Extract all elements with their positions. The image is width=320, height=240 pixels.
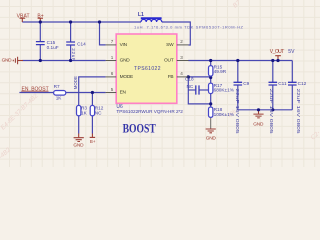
svg-text:NC: NC [95, 110, 102, 115]
svg-text:R7: R7 [54, 84, 60, 89]
svg-text:7: 7 [111, 39, 114, 44]
svg-text:3: 3 [180, 55, 183, 60]
svg-text:C12: C12 [298, 81, 307, 86]
svg-text:FB: FB [168, 74, 174, 80]
svg-text:1K: 1K [81, 110, 88, 115]
svg-text:OUT: OUT [164, 58, 174, 64]
svg-text:V_OUT: V_OUT [270, 49, 285, 55]
svg-text:L1: L1 [138, 12, 144, 18]
svg-text:2: 2 [180, 39, 183, 44]
svg-text:C9: C9 [243, 81, 249, 86]
svg-text:C14: C14 [77, 42, 86, 47]
svg-text:GND: GND [73, 142, 84, 148]
svg-text:MODE: MODE [73, 76, 78, 89]
svg-text:C11: C11 [278, 81, 287, 86]
svg-text:EN_BOOST: EN_BOOST [22, 86, 49, 92]
svg-text:100K±1%: 100K±1% [214, 112, 234, 117]
svg-text:GND: GND [120, 58, 131, 64]
svg-text:C18: C18 [185, 76, 194, 81]
svg-text:49.9R: 49.9R [214, 69, 227, 74]
svg-text:22uF: 22uF [71, 48, 76, 61]
svg-text:GND: GND [206, 135, 217, 141]
svg-text:4: 4 [180, 71, 183, 76]
svg-text:VIN: VIN [120, 42, 128, 48]
svg-text:VBAT: VBAT [17, 13, 30, 19]
svg-text:5V: 5V [288, 49, 295, 55]
svg-text:B+: B+ [90, 139, 96, 144]
svg-text:GND: GND [253, 121, 264, 127]
svg-text:0.1uF: 0.1uF [47, 45, 59, 50]
svg-text:MODE: MODE [120, 74, 133, 80]
svg-text:SW: SW [166, 42, 174, 48]
svg-text:1uH 7.1*6.6*3.0 mm TDK SPM653: 1uH 7.1*6.6*3.0 mm TDK SPM6530T-1R0M-HZ [134, 25, 244, 30]
svg-text:5: 5 [111, 87, 114, 92]
svg-text:22uF 16V 0805: 22uF 16V 0805 [296, 89, 301, 135]
svg-text:EN: EN [120, 90, 127, 96]
svg-text:TPS61022RWUR VQFN-HR 2*2: TPS61022RWUR VQFN-HR 2*2 [116, 109, 183, 114]
svg-text:22uF 16V 0805: 22uF 16V 0805 [269, 89, 274, 135]
svg-text:1K: 1K [56, 96, 63, 101]
svg-text:BOOST: BOOST [123, 120, 156, 135]
svg-text:1: 1 [111, 55, 114, 60]
svg-text:B+: B+ [37, 13, 43, 19]
svg-text:680K±1%: 680K±1% [214, 88, 234, 93]
svg-text:NC: NC [187, 84, 194, 89]
svg-text:TPS61022: TPS61022 [134, 66, 161, 72]
svg-text:22uF 16V 0805: 22uF 16V 0805 [235, 89, 240, 135]
svg-text:6: 6 [111, 71, 114, 76]
svg-text:GND: GND [2, 58, 13, 64]
